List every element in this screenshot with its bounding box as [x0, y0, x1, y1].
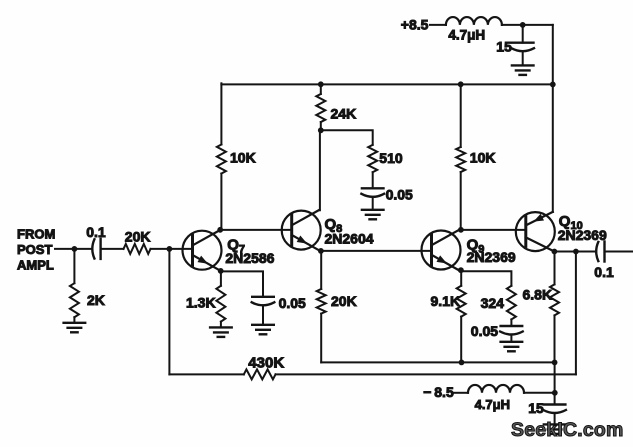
wire feedback up to output node: [575, 252, 577, 375]
resistor 430K: [244, 369, 276, 379]
node Q9 collector: [458, 227, 464, 233]
label Q9: [467, 236, 485, 255]
label 0.05 (below 510): [386, 187, 413, 203]
wire capacitor to 20K: [101, 248, 124, 250]
label 324: [481, 295, 505, 311]
wire +8.5 rail down to Q10 emitter: [552, 25, 554, 212]
wire 24K to node: [320, 122, 322, 130]
capacitor 15 (bottom): [543, 405, 566, 414]
node bottom bus / 9.1K: [459, 360, 465, 366]
svg-text:2N2604: 2N2604: [325, 230, 374, 246]
svg-text:FROM: FROM: [17, 227, 55, 242]
label 2N2586: [225, 250, 274, 266]
svg-text:4.7μH: 4.7μH: [475, 397, 510, 412]
wire 20K to bottom bus: [320, 314, 322, 363]
wire feedback left segment: [169, 373, 243, 375]
wire 20K to Q7 base: [151, 248, 193, 250]
label AMPL: [17, 258, 54, 273]
wire Q7 emitter to 1.3K: [220, 271, 222, 286]
wire bus down to -8.5 node: [554, 362, 556, 404]
resistor 10K (Q7 collector): [217, 145, 226, 174]
ground (Q7 0.05): [252, 325, 274, 335]
svg-text:0.1: 0.1: [86, 224, 106, 240]
svg-text:0.05: 0.05: [279, 295, 306, 311]
wire Q8 collector to 24K node: [319, 130, 321, 210]
wire Q9 emitter to 9.1K: [460, 270, 462, 286]
label 2N2369 (Q9): [467, 249, 516, 265]
wire bottom bus: [321, 361, 554, 363]
label 1.3K: [186, 295, 216, 311]
node Q8 emitter: [318, 248, 324, 254]
transistor Q10 2N2369 (pnp-style, emitter up): [516, 212, 555, 252]
node top bus / 24K: [318, 81, 324, 87]
label 0.1 (input): [86, 224, 106, 240]
wire Q9 collector to Q10 base: [461, 229, 526, 231]
wire bus to 10K left: [220, 83, 222, 144]
wire Q8 emitter to 20K: [320, 251, 322, 289]
ground (2K): [64, 323, 86, 333]
wire node to 510 branch: [321, 130, 373, 145]
wire inductor to -8.5 node: [524, 392, 555, 394]
label 2N2604: [325, 230, 374, 246]
wire 0.05 to ground (Q9): [510, 335, 512, 342]
wire Q7 emitter to 0.05 branch: [221, 271, 263, 296]
wire Q10 collector to 6.8K: [554, 252, 556, 285]
label 2N2369 (Q10): [558, 227, 607, 243]
wire bus to 24K: [320, 84, 322, 94]
label 510: [379, 150, 403, 166]
svg-text:324: 324: [481, 295, 505, 311]
wire Q7 collector to Q8 base: [220, 229, 292, 231]
svg-text:2N2586: 2N2586: [225, 250, 274, 266]
node +8.5 rail / top bus: [550, 82, 556, 88]
svg-text:20K: 20K: [331, 293, 357, 309]
svg-text:1.3K: 1.3K: [186, 295, 216, 311]
node 24K / 510 / Q8 collector: [318, 127, 324, 133]
svg-text:2K: 2K: [87, 292, 105, 308]
label 9.1K: [431, 293, 461, 309]
label 4.7uH (top): [448, 28, 485, 43]
wire Q10 collector to output cap: [554, 251, 596, 253]
resistor 20K (input): [124, 244, 151, 254]
wire 0.05 to ground (Q7): [262, 305, 264, 325]
label 20K (Q8 emitter): [331, 293, 357, 309]
wire Q9 emitter to 324: [461, 271, 512, 286]
capacitor 0.1 (input): [92, 239, 100, 259]
node Q9 emitter: [458, 267, 464, 273]
node top bus / 10K right: [458, 81, 464, 87]
wire +8.5 label to inductor: [430, 24, 446, 26]
node Q7 collector: [217, 227, 223, 233]
resistor 2K: [70, 283, 79, 317]
capacitor 0.05 (Q7 emitter): [252, 297, 275, 306]
resistor 1.3K: [216, 286, 225, 322]
svg-text:10K: 10K: [470, 150, 496, 166]
svg-text:POST: POST: [17, 242, 52, 257]
resistor 10K (Q9 collector): [456, 147, 465, 172]
watermark SeekIC.com: [511, 419, 624, 441]
wire top +8.5 bus: [221, 83, 552, 85]
svg-text:0.1: 0.1: [594, 264, 614, 280]
resistor 24K: [316, 94, 325, 122]
ground (Q9 0.05): [501, 342, 523, 352]
node output / 430K feedback: [573, 249, 579, 255]
label 6.8K: [523, 286, 553, 302]
node input / 2K: [72, 246, 78, 252]
capacitor 15 (top): [511, 43, 534, 52]
inductor 4.7uH (bottom): [468, 385, 524, 393]
svg-text:4.7μH: 4.7μH: [448, 28, 485, 43]
node +8.5 filter junction: [520, 22, 526, 28]
ground (bottom 15 cap): [544, 424, 566, 434]
svg-text:2N2369: 2N2369: [467, 249, 516, 265]
wire 324 to capacitor 0.05: [510, 319, 512, 326]
inductor 4.7uH (top): [446, 17, 502, 25]
transistor Q9 2N2369: [422, 230, 461, 271]
label 0.05 (Q7 emitter): [279, 295, 306, 311]
transistor Q8 2N2604: [282, 210, 321, 251]
svg-text:0.05: 0.05: [471, 323, 498, 339]
svg-text:9.1K: 9.1K: [431, 293, 461, 309]
wire bus to 10K right: [460, 84, 462, 147]
resistor 6.8K: [550, 284, 559, 315]
svg-text:6.8K: 6.8K: [523, 286, 553, 302]
wire 2K to ground: [73, 317, 75, 323]
node Q7 emitter: [218, 268, 224, 274]
wire capacitor to ground (510 branch): [372, 197, 374, 210]
wire 510 to capacitor 0.05: [372, 172, 374, 188]
wire junction to capacitor 15 (top): [522, 25, 524, 43]
transistor Q7 2N2586: [183, 230, 222, 271]
svg-text:AMPL: AMPL: [17, 258, 54, 273]
capacitor 0.1 (output): [596, 242, 604, 262]
wire -8.5 label to inductor: [455, 392, 469, 394]
label 10K (right): [470, 150, 496, 166]
label 2K: [87, 292, 105, 308]
wire 6.8K to bottom bus: [554, 315, 556, 362]
label 10K (left): [230, 149, 256, 165]
wire input node to 2K: [73, 249, 75, 283]
ground (510 branch): [362, 210, 384, 220]
svg-text:15: 15: [528, 400, 544, 416]
label Q7: [227, 236, 245, 255]
resistor 20K (Q8 emitter): [317, 289, 326, 314]
label 15 (top): [496, 39, 512, 55]
label 430K: [248, 354, 284, 371]
label Q8: [325, 216, 343, 235]
label -8.5 supply: [423, 384, 454, 400]
node -8.5 junction: [552, 390, 558, 396]
label +8.5 supply: [401, 16, 429, 32]
capacitor 0.05 (Q9 emitter): [500, 326, 523, 335]
node bottom bus / 6.8K: [552, 360, 558, 366]
label 0.1 (output): [594, 264, 614, 280]
resistor 510: [368, 145, 377, 172]
wire 10K right to Q9 collector node: [460, 172, 462, 230]
svg-text:15: 15: [496, 39, 512, 55]
svg-text:24K: 24K: [331, 105, 357, 121]
svg-text:430K: 430K: [248, 354, 284, 371]
wire inductor to +8.5 rail: [502, 24, 553, 26]
wire capacitor 15 to ground (bottom): [554, 413, 556, 424]
label POST: [17, 242, 52, 257]
svg-text:20K: 20K: [125, 228, 151, 244]
svg-text:SeekIC.com: SeekIC.com: [511, 419, 624, 441]
wire Q8 emitter to Q9 base: [321, 250, 431, 252]
svg-text:10K: 10K: [230, 149, 256, 165]
label FROM: [17, 227, 55, 242]
svg-text:0.05: 0.05: [386, 187, 413, 203]
wire feedback right segment: [276, 373, 576, 375]
label 0.05 (Q9 emitter): [471, 323, 498, 339]
svg-text:510: 510: [379, 150, 403, 166]
svg-text:− 8.5: − 8.5: [423, 384, 454, 400]
label Q10: [559, 213, 583, 232]
resistor 9.1K: [457, 286, 466, 317]
capacitor 0.05 (below 510): [361, 188, 384, 197]
wire capacitor to ground (top): [522, 51, 524, 65]
node input bias / 430K feedback: [167, 246, 173, 252]
wire 10K left to Q7 collector node: [220, 174, 222, 230]
wire input lead: [55, 248, 92, 250]
wire output: [605, 251, 633, 253]
wire 9.1K to bottom bus: [460, 317, 462, 363]
label 15 (bottom): [528, 400, 544, 416]
ground (1.3K): [210, 327, 232, 337]
label 24K: [331, 105, 357, 121]
svg-text:+8.5: +8.5: [401, 16, 429, 32]
wire 1.3K to ground: [220, 322, 222, 328]
label 4.7uH (bottom): [475, 397, 510, 412]
node Q10 collector: [552, 249, 558, 255]
label 20K (input): [125, 228, 151, 244]
svg-text:2N2369: 2N2369: [558, 227, 607, 243]
ground (top 15 cap): [512, 65, 534, 75]
wire input node down (feedback): [168, 249, 170, 375]
resistor 324: [507, 286, 516, 320]
